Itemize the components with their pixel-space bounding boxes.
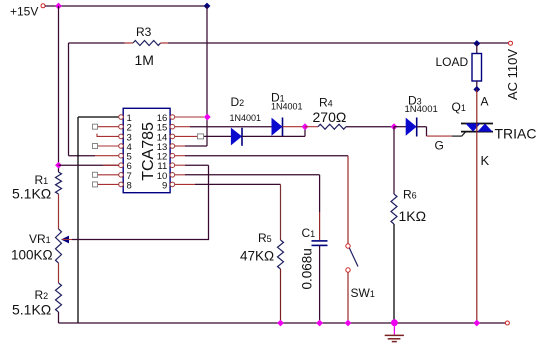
wire load to triac anode	[476, 89, 478, 123]
IC U1 TCA785	[123, 108, 170, 192]
pin circles right	[170, 115, 175, 187]
junction dot C1 rail	[316, 320, 323, 327]
pin 14 wire to D2	[175, 135, 198, 137]
pin 6 wire	[59, 164, 119, 166]
wire top rail +15V	[45, 5, 207, 7]
svg-text:9: 9	[162, 180, 167, 191]
bottom rail	[59, 322, 506, 324]
svg-text:A: A	[481, 95, 489, 109]
pin 2 terminal square	[93, 124, 98, 129]
resistor R2	[12, 283, 62, 318]
svg-text:R3: R3	[136, 25, 152, 39]
wire D1 cathode to junction	[283, 126, 306, 128]
wire triac cathode to bottom rail	[476, 132, 478, 323]
svg-text:47KΩ: 47KΩ	[240, 249, 274, 264]
wire branch to pin5	[69, 155, 96, 157]
switch SW1	[346, 244, 375, 323]
diode D2	[230, 95, 262, 146]
pin 7 terminal square	[93, 172, 98, 177]
wire junction to D3	[394, 126, 406, 128]
ground	[385, 319, 404, 341]
pin 5 wire	[95, 155, 119, 157]
resistor R6	[391, 127, 426, 323]
svg-text:SW1: SW1	[351, 286, 375, 300]
svg-text:270Ω: 270Ω	[313, 109, 347, 125]
junction dot top right branch	[204, 3, 211, 10]
svg-text:K: K	[481, 153, 490, 168]
svg-text:LOAD: LOAD	[436, 55, 469, 69]
svg-text:8: 8	[127, 180, 132, 191]
svg-text:C1: C1	[302, 226, 316, 240]
wire left rail upper	[58, 6, 60, 172]
svg-text:0.068u: 0.068u	[300, 248, 315, 289]
diode D3	[405, 94, 438, 137]
svg-text:D2: D2	[231, 95, 245, 109]
pin 9 wire to R5	[175, 183, 195, 185]
junction dot triac rail	[473, 320, 480, 327]
AC terminal top	[509, 41, 513, 45]
svg-text:1N4001: 1N4001	[230, 113, 262, 123]
load resistor	[436, 44, 482, 90]
junction dot load top	[473, 40, 480, 47]
svg-text:1N4001: 1N4001	[271, 102, 303, 112]
pin 8 terminal square	[93, 182, 98, 187]
pin 14 terminal square	[198, 134, 204, 139]
svg-text:TCA785: TCA785	[140, 122, 157, 181]
junction dot left rail top	[55, 3, 62, 10]
resistor R5	[240, 231, 284, 323]
pin 10 wire to C1	[175, 174, 185, 176]
junction dot SW1 rail	[345, 320, 352, 327]
svg-text:R5: R5	[258, 231, 272, 245]
wire R2 to bottom rail	[58, 312, 60, 323]
wire R1 to VR1	[58, 194, 60, 229]
capacitor C1	[300, 226, 328, 323]
svg-text:5.1KΩ: 5.1KΩ	[12, 302, 51, 318]
svg-text:VR1: VR1	[29, 232, 51, 246]
triac Q1	[452, 100, 537, 142]
pin 2 wire	[98, 126, 119, 128]
svg-text:TRIAC: TRIAC	[495, 126, 537, 142]
wire VR1 to R2	[58, 263, 60, 283]
resistor R4	[305, 96, 394, 130]
pin 3 stub	[97, 134, 119, 137]
resistor R3	[69, 25, 169, 68]
pin 13 wire	[175, 145, 185, 147]
potentiometer VR1	[11, 229, 69, 263]
pin 4 terminal square	[93, 144, 98, 149]
junction dot pin16	[204, 114, 211, 121]
pin 12 wire to SW1	[175, 155, 185, 157]
svg-text:1N4001: 1N4001	[405, 104, 438, 115]
wire pin11 to VR1 wiper	[72, 165, 209, 239]
svg-text:1KΩ: 1KΩ	[399, 208, 427, 224]
svg-text:+15V: +15V	[10, 5, 38, 19]
pin 7 wire	[98, 174, 119, 176]
svg-text:R4: R4	[319, 96, 333, 110]
diode D1	[271, 91, 303, 137]
pin 1 wire	[78, 116, 119, 118]
svg-text:AC 110V: AC 110V	[505, 49, 520, 100]
pin 8 wire	[98, 183, 119, 185]
svg-text:5.1KΩ: 5.1KΩ	[12, 186, 51, 202]
svg-text:Q1: Q1	[452, 100, 466, 114]
junction dot D1 D2	[302, 123, 309, 130]
pin circles left	[119, 115, 124, 187]
pin 15 wire to D1	[175, 126, 190, 128]
svg-text:R2: R2	[35, 288, 49, 302]
svg-text:100KΩ: 100KΩ	[11, 248, 53, 263]
pin 4 wire	[98, 145, 119, 147]
junction dot pin6 tap	[55, 162, 62, 169]
pin 11 wire	[175, 164, 185, 166]
AC terminal bottom	[505, 321, 509, 325]
power terminal +15V	[10, 4, 45, 19]
svg-text:R6: R6	[403, 188, 417, 202]
wire R3 to AC terminal	[168, 42, 509, 44]
ground branch from pin1	[77, 117, 79, 323]
junction dot load bottom	[473, 86, 480, 93]
resistor R1	[12, 172, 62, 202]
wire R3 branch vertical	[68, 43, 70, 156]
wire D2 cathode to junction	[242, 127, 305, 137]
junction dot R4 D3 R6	[391, 123, 398, 130]
wire D3 to gate	[417, 127, 466, 153]
junction dot R5 rail	[277, 320, 284, 327]
pin 16 wire	[175, 116, 204, 118]
wire +15V branch down to pins 16 13	[206, 6, 208, 146]
svg-text:G: G	[435, 139, 444, 153]
svg-text:1M: 1M	[135, 52, 154, 68]
